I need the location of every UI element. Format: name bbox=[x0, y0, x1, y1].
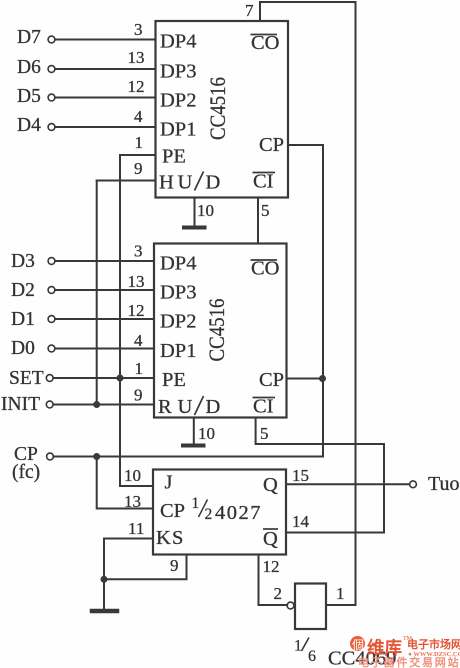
svg-text:H: H bbox=[159, 172, 174, 194]
svg-text:K: K bbox=[156, 527, 171, 549]
svg-text:D4: D4 bbox=[17, 115, 41, 136]
label 1/6 CC4069 bbox=[294, 638, 396, 668]
terminal D2 bbox=[48, 287, 55, 294]
svg-text:CP: CP bbox=[160, 500, 185, 522]
svg-text:Q: Q bbox=[263, 528, 278, 550]
svg-text:DP2: DP2 bbox=[160, 311, 196, 333]
terminal Tuo output bbox=[410, 481, 417, 488]
svg-text:D2: D2 bbox=[11, 280, 35, 301]
ground for U3 K and S bbox=[92, 609, 117, 614]
watermark logo dzsc bbox=[350, 636, 460, 668]
svg-text:PE: PE bbox=[162, 369, 186, 391]
svg-text:S: S bbox=[172, 527, 183, 549]
wire D7 to U1 DP4 pin 3 bbox=[55, 39, 155, 41]
wire D3 to U2 DP4 pin 3 bbox=[55, 260, 154, 262]
svg-text:U: U bbox=[178, 396, 193, 418]
svg-text:4: 4 bbox=[134, 107, 143, 126]
wire U1 CP pin to clock bus bbox=[288, 144, 323, 146]
overline of U2 CI bbox=[253, 397, 276, 399]
svg-text:12: 12 bbox=[128, 77, 145, 96]
svg-text:DP1: DP1 bbox=[160, 340, 196, 362]
svg-text:6: 6 bbox=[308, 648, 316, 665]
svg-text:13: 13 bbox=[128, 48, 145, 67]
wire CP(fc) clock line to clock bus bbox=[54, 456, 323, 458]
wire clock bus vertical x=323 bbox=[322, 145, 324, 457]
svg-text:R: R bbox=[158, 396, 172, 418]
junction dot INIT line x=97 bbox=[93, 401, 100, 408]
junction dot SET line x=120 bbox=[117, 375, 124, 382]
svg-text:D: D bbox=[206, 396, 221, 418]
svg-text:CC4516: CC4516 bbox=[204, 299, 229, 362]
ground for U1 pin 10 bbox=[184, 226, 205, 230]
wire U1 U/D pin 9 stub bbox=[97, 180, 156, 182]
overline of U1 CI bbox=[253, 172, 276, 174]
svg-text:D6: D6 bbox=[17, 57, 41, 78]
wire D5 to U1 DP2 pin 12 bbox=[55, 97, 155, 99]
wire right-side vertical from top to inverter output bbox=[355, 2, 357, 605]
wire INIT vertical bus x=97 (U1 pin9 down to INIT line) bbox=[96, 181, 98, 405]
svg-text:5: 5 bbox=[261, 201, 270, 220]
svg-text:D1: D1 bbox=[11, 309, 35, 330]
ground for U2 pin 10 bbox=[183, 444, 204, 448]
wire U3 K pin 11 to ground bus bbox=[104, 539, 153, 609]
slash of 1/2 bbox=[199, 500, 208, 518]
overline of U3 Qbar bbox=[263, 528, 278, 530]
junction dot CP line x=97 bbox=[93, 453, 100, 460]
svg-text:DP1: DP1 bbox=[160, 119, 196, 141]
flip-flop U3 1/2 CC4027 body bbox=[153, 470, 286, 555]
svg-text:2: 2 bbox=[205, 506, 213, 523]
svg-text:3: 3 bbox=[134, 20, 143, 39]
svg-text:1: 1 bbox=[135, 359, 144, 378]
svg-text:CP: CP bbox=[259, 134, 284, 156]
wire SET line to U2 PE pin 1 bbox=[53, 377, 154, 379]
svg-text:1: 1 bbox=[135, 133, 144, 152]
svg-text:电子器件交易网站: 电子器件交易网站 bbox=[358, 655, 460, 668]
svg-text:D5: D5 bbox=[17, 86, 41, 107]
svg-text:Q: Q bbox=[263, 474, 278, 496]
svg-text:维库: 维库 bbox=[367, 638, 402, 658]
wire D1 to U2 DP2 pin 12 bbox=[55, 318, 154, 320]
wire inverter output pin 1 to right-side vertical bbox=[326, 604, 356, 606]
svg-text:DP4: DP4 bbox=[160, 253, 196, 275]
wire D0 to U2 DP1 pin 4 bbox=[55, 348, 154, 350]
svg-text:7: 7 bbox=[245, 1, 254, 20]
wire U3 S pin 9 to ground bus bbox=[104, 555, 187, 580]
wire U2 pin 10 to ground bbox=[193, 418, 195, 446]
svg-text:12: 12 bbox=[128, 301, 145, 320]
wire U2 CI pin 5 to U3 Qbar pin 14 bbox=[256, 418, 384, 533]
svg-text:2: 2 bbox=[274, 584, 283, 603]
svg-text:11: 11 bbox=[128, 519, 144, 538]
svg-text:INIT: INIT bbox=[1, 394, 40, 415]
counter U1 CC4516 (upper) body bbox=[156, 21, 289, 198]
svg-text:15: 15 bbox=[292, 466, 309, 485]
wire CP(fc) branch down to U3 CP pin 13 bbox=[97, 457, 153, 509]
svg-text:电子市场网: 电子市场网 bbox=[407, 637, 460, 651]
terminal D6 bbox=[48, 66, 55, 73]
svg-text:D7: D7 bbox=[17, 27, 41, 48]
inverter U4 input bubble pin 2 bbox=[287, 602, 294, 609]
wire U1 PE pin 1 stub bbox=[120, 154, 156, 156]
terminal D7 bbox=[48, 36, 55, 43]
svg-text:4: 4 bbox=[134, 331, 143, 350]
terminal D3 bbox=[48, 258, 55, 265]
terminal D5 bbox=[48, 94, 55, 101]
svg-text:1: 1 bbox=[294, 638, 302, 655]
svg-text:U: U bbox=[178, 172, 193, 194]
wire U2 CP pin to clock bus bbox=[287, 378, 324, 380]
svg-text:10: 10 bbox=[198, 424, 215, 443]
svg-text:CP: CP bbox=[259, 369, 284, 391]
svg-text:DP4: DP4 bbox=[160, 31, 196, 53]
svg-text:D0: D0 bbox=[11, 338, 35, 359]
overline of U2 CO bbox=[251, 259, 278, 261]
svg-text:PE: PE bbox=[162, 146, 186, 168]
svg-text:CI: CI bbox=[253, 396, 274, 418]
wire D6 to U1 DP3 pin 13 bbox=[55, 68, 155, 70]
svg-text:9: 9 bbox=[134, 159, 143, 178]
terminal INIT bbox=[46, 401, 53, 408]
wire INIT line to U2 U/D pin 9 bbox=[53, 404, 154, 406]
svg-text:14: 14 bbox=[292, 512, 310, 531]
wire U3 pin 12 to inverter input pin 2 bbox=[259, 555, 288, 606]
terminal D4 bbox=[48, 124, 55, 131]
svg-text:CI: CI bbox=[253, 171, 274, 193]
svg-text:13: 13 bbox=[128, 272, 145, 291]
svg-text:3: 3 bbox=[134, 242, 143, 261]
wire SET vertical bus x=120 (U1 PE to SET line to U3 J corner) bbox=[120, 155, 153, 486]
svg-text:D: D bbox=[206, 172, 221, 194]
wire U1 CI pin 5 down to U2 CO pin 7 bbox=[257, 198, 259, 244]
svg-text:9: 9 bbox=[134, 386, 143, 405]
svg-text:CC4516: CC4516 bbox=[205, 77, 230, 140]
svg-text:1: 1 bbox=[192, 495, 200, 512]
svg-text:個: 個 bbox=[352, 638, 364, 652]
junction dot clock bus at U2 CP bbox=[319, 375, 326, 382]
svg-text:13: 13 bbox=[124, 492, 141, 511]
terminal SET bbox=[46, 375, 53, 382]
svg-text:(fc): (fc) bbox=[12, 462, 40, 483]
terminal CP (fc) bbox=[47, 453, 54, 460]
svg-text:J: J bbox=[165, 472, 173, 494]
svg-text:12: 12 bbox=[263, 557, 280, 576]
wire D2 to U2 DP3 pin 13 bbox=[55, 289, 154, 291]
counter U2 CC4516 (lower) body bbox=[154, 244, 287, 418]
terminal D0 bbox=[48, 345, 55, 352]
wire U3 Q pin 15 to Tuo terminal bbox=[286, 483, 410, 485]
wire D4 to U1 DP1 pin 4 bbox=[55, 126, 155, 128]
svg-text:10: 10 bbox=[124, 466, 141, 485]
svg-text:1: 1 bbox=[336, 584, 345, 603]
svg-text:DP2: DP2 bbox=[160, 90, 196, 112]
svg-text:5: 5 bbox=[260, 424, 269, 443]
svg-text:DP3: DP3 bbox=[160, 61, 196, 83]
svg-text:SET: SET bbox=[9, 368, 44, 389]
inverter U4 1/6 CC4069 body bbox=[295, 584, 326, 630]
wire U1 pin 10 to ground bbox=[194, 198, 196, 228]
svg-text:4027: 4027 bbox=[215, 502, 262, 524]
svg-text:D3: D3 bbox=[11, 251, 35, 272]
wire U1 CO pin 7 up and across top bbox=[260, 2, 356, 21]
overline of U1 CO bbox=[251, 34, 278, 36]
terminal D1 bbox=[48, 316, 55, 323]
junction dot ground bus U3 bbox=[101, 576, 108, 583]
svg-text:Tuo: Tuo bbox=[428, 473, 460, 495]
svg-text:DP3: DP3 bbox=[160, 282, 196, 304]
svg-text:9: 9 bbox=[170, 556, 179, 575]
svg-text:10: 10 bbox=[197, 201, 214, 220]
